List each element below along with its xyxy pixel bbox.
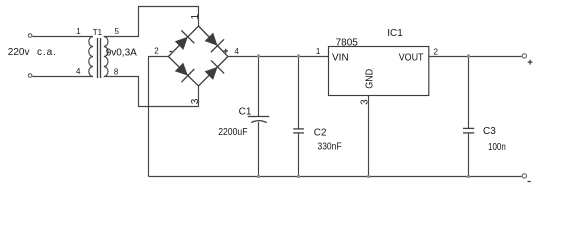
svg-text:8: 8 — [114, 67, 119, 76]
junction: C1 bottom at rail — [257, 175, 260, 178]
svg-text:C2: C2 — [314, 128, 327, 139]
diode D2 top-right (node1 to node4) — [205, 33, 225, 53]
regulator IC1 7805 box — [329, 47, 429, 96]
wire: C2 top lead — [298, 57, 300, 129]
terminal: output plus (open circle) — [522, 54, 526, 58]
output minus polarity mark — [528, 181, 531, 183]
svg-text:1: 1 — [316, 47, 321, 56]
wire: IC1 GND pin to ground rail — [368, 96, 370, 177]
svg-text:1: 1 — [190, 13, 201, 19]
junction: C2 bottom at rail — [297, 175, 300, 178]
wire: bottom ground rail — [149, 176, 522, 178]
wire: C1 bottom lead — [258, 122, 260, 177]
transformer T1 primary winding — [89, 37, 93, 77]
svg-text:VIN: VIN — [332, 52, 349, 63]
capacitor C1 (polarized) plates — [248, 116, 269, 118]
svg-text:7805: 7805 — [336, 37, 359, 48]
svg-text:c.a.: c.a. — [37, 47, 57, 58]
svg-text:T1: T1 — [93, 28, 103, 37]
svg-text:100n: 100n — [488, 142, 506, 153]
transformer T1 secondary winding — [104, 37, 108, 77]
junction: C2 top — [297, 54, 300, 57]
svg-text:330nF: 330nF — [318, 141, 342, 152]
svg-text:GND: GND — [365, 69, 376, 89]
svg-text:220v: 220v — [8, 47, 30, 58]
bridge rectifier diamond outline — [168, 26, 228, 86]
svg-text:C3: C3 — [483, 126, 496, 137]
junction: C3 top — [467, 54, 470, 57]
svg-text:2: 2 — [434, 47, 439, 56]
svg-text:C1: C1 — [239, 106, 252, 117]
diode D3 bottom-left (node2 to node3) — [175, 63, 195, 83]
wire: IC1 VOUT to output terminal — [429, 56, 522, 58]
wire: bridge node 4 to IC1 VIN — [228, 56, 329, 58]
diode D1 top-left (node2 to node1) — [175, 30, 195, 50]
wire: secondary pin 8 to bridge AC node 3 — [104, 77, 199, 107]
bridge plus polarity mark — [224, 50, 228, 52]
wire: C3 top lead — [468, 57, 470, 129]
svg-text:3: 3 — [190, 98, 201, 104]
wire: C1 top lead — [258, 57, 260, 117]
wire: secondary pin 5 to bridge AC node 1 — [104, 7, 199, 37]
output plus polarity mark — [528, 61, 533, 63]
terminal: AC input bottom (open circle) — [28, 74, 32, 78]
transformer T1 core — [97, 38, 99, 78]
svg-text:4: 4 — [234, 47, 239, 56]
junction: GND at rail — [367, 175, 370, 178]
junction: C1 top — [257, 54, 260, 57]
bridge minus polarity mark — [169, 51, 172, 53]
wire: AC top terminal to transformer primary pin 1 — [32, 36, 93, 38]
svg-text:2: 2 — [154, 46, 159, 55]
capacitor C3 plates — [463, 127, 474, 129]
svg-text:IC1: IC1 — [387, 28, 403, 39]
svg-text:5: 5 — [115, 27, 120, 36]
terminal: AC input top (open circle) — [28, 34, 32, 38]
diode D4 bottom-right (node3 to node4) — [205, 60, 225, 80]
wire: bridge node 2 to ground rail — [149, 57, 169, 177]
terminal: output minus (open circle) — [522, 174, 526, 178]
capacitor C2 plates — [293, 128, 304, 130]
svg-text:1: 1 — [76, 27, 81, 36]
wire: AC bottom terminal to transformer primary pin 4 — [32, 76, 93, 78]
svg-text:9v0,3A: 9v0,3A — [106, 48, 137, 59]
svg-text:4: 4 — [76, 67, 81, 76]
svg-text:VOUT: VOUT — [399, 52, 424, 63]
wire: C2 bottom lead — [298, 133, 300, 177]
wire: C3 bottom lead — [468, 133, 470, 177]
svg-text:2200uF: 2200uF — [218, 127, 247, 138]
junction: C3 bottom at rail — [467, 175, 470, 178]
